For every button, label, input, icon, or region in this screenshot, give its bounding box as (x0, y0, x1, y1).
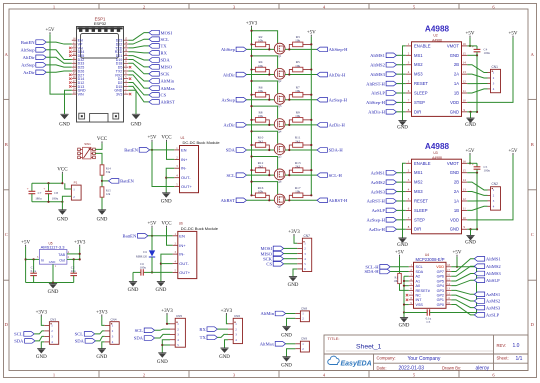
svg-text:OUT-: OUT- (181, 175, 191, 180)
svg-text:AzDir-H: AzDir-H (369, 227, 386, 232)
svg-text:+: + (27, 187, 29, 191)
wire (247, 48, 275, 50)
ground (36, 349, 47, 361)
svg-text:IN-: IN- (179, 252, 185, 257)
net flag AzSLP (372, 208, 397, 213)
svg-text:GND: GND (49, 260, 56, 264)
svg-text:2A: 2A (454, 189, 459, 194)
svg-text:MS1: MS1 (414, 53, 423, 58)
svg-text:AltDir-H: AltDir-H (329, 72, 346, 77)
net flag AzMS3 (474, 305, 501, 310)
svg-text:EN: EN (181, 147, 187, 152)
svg-text:RESET#: RESET# (416, 289, 431, 293)
net flag AltDir (23, 55, 47, 60)
wire (467, 200, 487, 202)
svg-text:MS1: MS1 (414, 170, 423, 175)
svg-text:aleroy: aleroy (476, 366, 490, 372)
capacitor C8 180u (43, 183, 58, 202)
svg-text:Q6: Q6 (278, 180, 282, 184)
svg-text:100u: 100u (484, 169, 491, 173)
svg-text:13: 13 (463, 188, 467, 192)
net flag SDA (149, 58, 170, 63)
svg-text:SDA: SDA (226, 148, 236, 153)
no-connect marks U4 (406, 294, 408, 301)
wire (34, 331, 44, 334)
svg-text:AltRST-H: AltRST-H (329, 198, 348, 203)
net flag AzDir (23, 70, 46, 75)
wire (476, 173, 478, 230)
svg-text:A2: A2 (416, 275, 421, 279)
svg-text:SCK: SCK (161, 72, 171, 77)
svg-text:SDA-H: SDA-H (365, 269, 380, 274)
svg-text:AzSLP: AzSLP (486, 313, 500, 318)
svg-text:10k: 10k (258, 114, 263, 118)
net flag AltMS2 (474, 264, 501, 269)
svg-text:1B: 1B (454, 91, 459, 96)
svg-text:GP0: GP0 (437, 303, 444, 307)
wire battery top rail (32, 182, 63, 184)
svg-text:OUT+: OUT+ (181, 184, 192, 189)
resistor R8 (250, 110, 270, 126)
wire (152, 271, 173, 273)
wire (155, 329, 170, 330)
wire (46, 42, 72, 44)
capacitor C5 100u (472, 162, 490, 172)
resistor R16 (250, 186, 270, 202)
svg-text:1/1: 1/1 (516, 356, 523, 362)
svg-text:10k: 10k (295, 114, 300, 118)
resistor R1 10k (394, 257, 402, 284)
net flag SCL-H (317, 173, 343, 178)
ESP32 module ESP1 (77, 17, 124, 123)
svg-text:GND: GND (36, 355, 47, 360)
wire (467, 54, 477, 56)
net flag BattEN (U1 EN) (124, 148, 149, 153)
svg-text:STEP: STEP (414, 217, 425, 222)
wire (451, 266, 476, 268)
svg-text:2k2: 2k2 (258, 139, 263, 143)
wire (285, 99, 317, 101)
svg-text:1: 1 (53, 373, 55, 378)
resistor R7 (288, 85, 312, 100)
connector CN1 (488, 65, 501, 93)
wire (467, 38, 513, 103)
svg-text:GP1: GP1 (437, 298, 444, 302)
svg-text:12k: 12k (106, 192, 111, 196)
wire (286, 343, 296, 345)
ground (161, 193, 172, 205)
svg-text:BattEN: BattEN (124, 148, 138, 153)
resistor R13 (288, 161, 312, 176)
net flag SDA-H (365, 269, 391, 274)
net flag AzDir-H (369, 227, 397, 232)
title block (324, 335, 528, 371)
ground (281, 326, 292, 338)
ground (48, 284, 59, 296)
wire (61, 174, 63, 183)
svg-text:AltMS2: AltMS2 (370, 62, 386, 67)
svg-text:12: 12 (463, 80, 467, 84)
wire (467, 182, 487, 190)
svg-text:GND: GND (465, 123, 476, 128)
svg-text:Q2: Q2 (278, 79, 282, 83)
svg-text:1B: 1B (454, 208, 459, 213)
wire (294, 236, 297, 243)
wire (467, 65, 487, 73)
connector CN6 (228, 314, 243, 343)
ESP32 right pins (114, 38, 128, 97)
net flag AltSLP (371, 91, 396, 96)
wire (470, 229, 472, 235)
connector CN5 (170, 314, 185, 347)
net flag CS (149, 93, 167, 98)
transistor Q3 (274, 94, 285, 109)
net flag AltMS1 (474, 257, 501, 262)
wire (451, 290, 474, 294)
svg-text:2B: 2B (454, 180, 459, 185)
net flag AltMin (260, 311, 285, 316)
svg-text:AltMin: AltMin (161, 79, 175, 84)
svg-text:AzMS2: AzMS2 (371, 180, 386, 185)
svg-text:10k: 10k (295, 39, 300, 43)
svg-text:100u: 100u (484, 51, 491, 55)
svg-text:0.1u: 0.1u (31, 269, 37, 273)
net flag RX (199, 327, 217, 332)
wire (476, 267, 478, 313)
wire (285, 74, 317, 76)
svg-text:AltStep: AltStep (221, 47, 236, 52)
wire (451, 300, 474, 308)
wire (467, 82, 487, 84)
svg-text:A4988: A4988 (425, 142, 450, 151)
svg-text:IN-: IN- (181, 166, 187, 171)
wire (226, 315, 228, 324)
svg-text:CN3: CN3 (50, 317, 56, 321)
wire (128, 90, 136, 114)
svg-text:AltStep: AltStep (21, 48, 36, 53)
resistor R4 (250, 60, 270, 76)
wire (397, 228, 406, 230)
svg-text:AltMS2: AltMS2 (486, 264, 502, 269)
wire (397, 111, 406, 113)
wire (166, 168, 174, 193)
net flag AltDir-H (368, 110, 396, 115)
no-connect marks ESP32 left (69, 47, 71, 88)
svg-text:DC-DC Buck Module: DC-DC Buck Module (181, 226, 219, 231)
svg-text:VMOT: VMOT (447, 43, 460, 48)
svg-text:SCL: SCL (75, 332, 84, 337)
wire (225, 340, 229, 348)
connector CN2 (488, 182, 501, 210)
A4988 stepper driver module U2 (406, 25, 467, 117)
wire (102, 180, 109, 182)
connector CN9 (295, 337, 309, 352)
capacitor C2 22u (70, 258, 77, 282)
wire (247, 149, 275, 151)
wire (469, 38, 471, 46)
net flag SCL (14, 332, 34, 337)
wire ENABLE to ground (403, 46, 406, 121)
no-connect marks ESP32 right (129, 66, 131, 95)
svg-text:AzStep-H: AzStep-H (367, 218, 386, 223)
svg-text:GND: GND (161, 199, 172, 204)
resistor R14 33k (100, 165, 111, 175)
svg-text:2k2: 2k2 (258, 164, 263, 168)
wire (284, 247, 298, 249)
net flag TX (149, 44, 167, 49)
wire (65, 183, 72, 189)
wire (284, 253, 298, 255)
wire battery bottom rail (32, 201, 63, 203)
wire (397, 54, 406, 56)
connector CN7 (297, 234, 311, 271)
svg-text:MOSI: MOSI (161, 30, 173, 35)
svg-text:AltDir: AltDir (23, 55, 35, 60)
svg-text:1: 1 (53, 4, 55, 9)
capacitor C7 180u (27, 183, 42, 202)
wire (101, 197, 103, 210)
svg-text:ENABLE: ENABLE (414, 161, 431, 166)
svg-text:AzMS2: AzMS2 (486, 299, 501, 304)
svg-text:SDA: SDA (75, 339, 85, 344)
svg-text:2B: 2B (454, 62, 459, 67)
svg-text:AltMax: AltMax (161, 86, 176, 91)
wire (285, 149, 317, 151)
svg-text:Company:: Company: (377, 356, 396, 361)
svg-text:BattEN: BattEN (123, 234, 137, 239)
svg-text:CN6: CN6 (234, 314, 240, 318)
svg-text:GND: GND (450, 227, 459, 232)
svg-text:SCL: SCL (226, 173, 235, 178)
svg-text:AltMS1: AltMS1 (486, 257, 502, 262)
net flag AltMax (149, 86, 176, 91)
wire (284, 263, 298, 265)
wire (46, 65, 72, 67)
net flag AzDir-H (317, 123, 346, 128)
svg-text:MISO: MISO (161, 65, 173, 70)
svg-text:Your Company: Your Company (408, 356, 441, 362)
net flag SCL (135, 328, 155, 333)
wire (128, 75, 149, 88)
wire (397, 73, 406, 75)
svg-text:ESP32: ESP32 (94, 21, 107, 26)
net flag SCL (226, 173, 246, 178)
net flag AltStep-H (366, 100, 396, 105)
svg-text:DC-DC Buck Module: DC-DC Buck Module (183, 140, 221, 145)
wire (397, 92, 406, 94)
svg-text:SDA-H: SDA-H (329, 148, 344, 153)
svg-text:EasyEDA: EasyEDA (341, 360, 372, 367)
svg-text:AltRST-H: AltRST-H (366, 81, 385, 86)
resistor R12 (250, 161, 270, 176)
wire (476, 55, 478, 112)
svg-text:CN2: CN2 (492, 182, 499, 186)
wire (451, 274, 474, 281)
ground (131, 114, 142, 127)
svg-text:D1: D1 (143, 250, 147, 254)
svg-text:B: B (531, 142, 534, 147)
svg-text:Q5: Q5 (278, 154, 282, 158)
svg-text:AzRST-H: AzRST-H (367, 199, 386, 204)
net flag AltDir (223, 72, 247, 77)
ground (399, 318, 410, 329)
svg-text:IN+: IN+ (179, 243, 186, 248)
net flag AltStep-H (317, 47, 348, 52)
wire (247, 124, 275, 126)
wire (41, 342, 44, 349)
svg-text:DIR: DIR (414, 227, 421, 232)
switch SW1 (78, 142, 96, 159)
wire (128, 59, 149, 66)
wire (467, 89, 487, 93)
net flag AltMS3 (474, 271, 501, 276)
svg-text:AltStep-H: AltStep-H (366, 100, 386, 105)
svg-text:CN1: CN1 (492, 65, 499, 69)
svg-text:GP2: GP2 (437, 294, 444, 298)
ground (97, 210, 108, 223)
connector P1 (71, 181, 81, 201)
svg-text:14: 14 (463, 178, 467, 182)
svg-text:RESET: RESET (414, 81, 428, 86)
wire (397, 181, 406, 183)
svg-text:RX: RX (161, 51, 168, 56)
svg-text:GND: GND (281, 333, 292, 338)
svg-text:10k: 10k (295, 190, 300, 194)
svg-text:TX: TX (200, 335, 207, 340)
wire (397, 64, 406, 66)
svg-text:3V3: 3V3 (116, 93, 122, 97)
transistor Q1 (274, 43, 285, 58)
net flag AzMS3 (371, 189, 397, 194)
ground (157, 353, 168, 365)
wire gate (252, 131, 278, 144)
ground (465, 235, 476, 245)
ground (281, 357, 292, 369)
connector CN3 (44, 317, 59, 344)
svg-text:C: C (531, 232, 534, 237)
svg-text:P1: P1 (74, 181, 78, 185)
net flag CS (266, 262, 283, 267)
svg-text:MS3: MS3 (414, 72, 423, 77)
net flag BattEN (21, 40, 46, 45)
net flag AltMin (149, 79, 175, 84)
svg-text:Q7: Q7 (278, 205, 282, 209)
svg-text:VDD: VDD (450, 217, 459, 222)
wire (451, 259, 474, 272)
net flag SDA (75, 339, 96, 344)
resistor R11 (288, 136, 312, 151)
net flag AzDir (223, 123, 246, 128)
wire (469, 155, 471, 163)
svg-text:AzStep-H: AzStep-H (329, 97, 348, 102)
wire (128, 83, 149, 95)
wire ENABLE to ground (403, 163, 406, 238)
svg-text:+: + (472, 162, 474, 166)
wire (95, 153, 102, 164)
wire (400, 284, 409, 291)
svg-text:CS: CS (266, 262, 272, 267)
svg-text:GND: GND (48, 290, 59, 295)
svg-text:SW1: SW1 (84, 142, 91, 146)
ground (96, 349, 107, 361)
wire (397, 191, 406, 193)
svg-text:11: 11 (463, 206, 466, 210)
svg-text:AltDir: AltDir (223, 72, 235, 77)
svg-text:10k: 10k (258, 190, 263, 194)
svg-text:A4988: A4988 (425, 25, 450, 34)
svg-text:10k: 10k (258, 39, 263, 43)
svg-text:AzDir: AzDir (223, 123, 235, 128)
svg-text:GND: GND (219, 355, 230, 360)
svg-text:C7: C7 (38, 191, 42, 195)
net flag AzMS2 (474, 299, 501, 304)
svg-text:MS3: MS3 (414, 189, 423, 194)
DC-DC buck module U1 (174, 136, 220, 193)
wire (26, 258, 40, 260)
wire (470, 112, 472, 118)
net flag AltRST (149, 100, 175, 105)
resistor R5 (288, 60, 312, 76)
svg-text:AltMin: AltMin (260, 311, 274, 316)
wire (95, 331, 105, 334)
svg-text:AzMS3: AzMS3 (371, 189, 386, 194)
svg-text:SCL: SCL (416, 265, 423, 269)
wire (247, 174, 275, 176)
wire (467, 74, 487, 78)
frame column numbers (53, 4, 496, 377)
svg-text:MS2: MS2 (414, 180, 423, 185)
capacitor C3 0.1u (404, 309, 477, 324)
transistor Q6 (274, 169, 285, 184)
resistor R17 (288, 186, 312, 202)
wire (166, 177, 174, 179)
wire (284, 258, 298, 260)
svg-text:OUT-: OUT- (179, 261, 189, 266)
net flag AltStep (221, 47, 247, 52)
wire (167, 228, 173, 246)
capacitor C1 0.1u (30, 259, 37, 282)
diode D1 MBR120 (136, 228, 155, 273)
svg-text:ENABLE: ENABLE (414, 43, 431, 48)
net flag AltDir-H (317, 72, 346, 77)
svg-text:C: C (5, 232, 8, 237)
svg-text:C8: C8 (54, 191, 58, 195)
ground (59, 114, 70, 127)
wire (397, 219, 406, 221)
wire (161, 254, 173, 281)
svg-text:15: 15 (463, 169, 467, 173)
svg-text:B: B (5, 142, 8, 147)
ground (128, 282, 139, 294)
ground (397, 121, 408, 131)
net flag SCK (263, 256, 284, 261)
wire (467, 228, 477, 230)
net flag SCL (149, 37, 169, 42)
net flag BattEN (109, 179, 135, 184)
wire (150, 149, 175, 151)
net flag MOSI (261, 246, 284, 251)
net flag AzStep-H (367, 218, 397, 223)
svg-text:STEP: STEP (414, 100, 425, 105)
svg-text:U3: U3 (433, 151, 437, 155)
svg-text:GND: GND (157, 360, 168, 365)
svg-text:Sheet:: Sheet: (497, 356, 509, 361)
svg-text:AzDir-H: AzDir-H (329, 123, 346, 128)
net flag AltRST (221, 198, 247, 203)
svg-text:DIR: DIR (414, 109, 421, 114)
net flag AltRST-H (317, 198, 348, 203)
wire (451, 295, 474, 301)
